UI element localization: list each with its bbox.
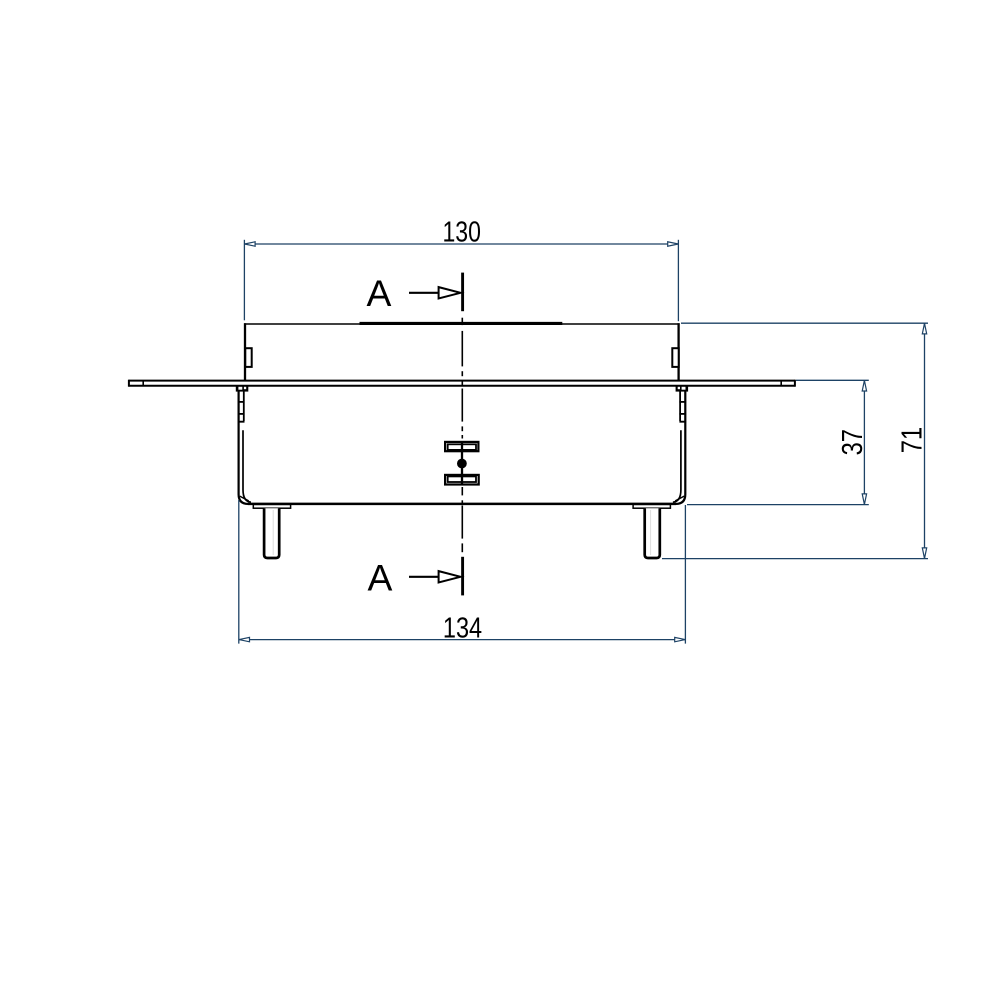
dimension 37 line xyxy=(863,380,865,504)
dimension 130 line xyxy=(244,243,678,245)
right wall rung 2 xyxy=(679,413,686,415)
section line top solid segment xyxy=(461,273,464,312)
lower box right wall outer line with corner fillet xyxy=(676,392,686,504)
dimension 71 line xyxy=(924,323,926,558)
right wall rung 1 xyxy=(679,401,686,403)
right leg mounting plate xyxy=(633,505,670,509)
section arrow bottom tail xyxy=(409,576,439,578)
upper box right edge xyxy=(677,323,679,380)
dimension 37 arrow down xyxy=(862,494,866,505)
svg-text:37: 37 xyxy=(837,429,869,455)
table top plate top line xyxy=(128,380,795,382)
burner clamp dot xyxy=(457,459,467,469)
dimension 134 extension line left xyxy=(238,500,240,644)
svg-text:71: 71 xyxy=(897,427,929,453)
right corner diagonal tick xyxy=(675,496,684,501)
lower box bottom edge xyxy=(248,503,676,506)
right wall rung 3 xyxy=(679,421,686,423)
right leg faint tangent line xyxy=(650,510,652,555)
left wall rung 2 xyxy=(238,413,245,415)
dimension 130 extension line left xyxy=(243,240,245,320)
dimension 134 arrow left xyxy=(239,637,250,641)
section line bottom solid segment xyxy=(461,557,464,596)
left clip on upper box edge xyxy=(245,348,251,367)
left wall rung 1 xyxy=(238,401,245,403)
dimension 71 arrow down xyxy=(922,548,926,559)
burner clamp bottom bar centerline crossing xyxy=(461,475,463,485)
svg-text:130: 130 xyxy=(443,216,481,248)
lower box right wall inner lower line with fillet xyxy=(673,430,681,502)
right leg shaft xyxy=(645,508,660,558)
burner clamp center line xyxy=(461,442,463,485)
plate left seam xyxy=(142,381,144,386)
burner clamp top bar outer xyxy=(445,442,478,451)
left hinge bracket under plate xyxy=(236,386,249,391)
section arrow bottom head xyxy=(439,571,461,582)
plate left end cap xyxy=(128,380,130,387)
upper box left edge xyxy=(244,323,246,380)
upper box top edge thin line xyxy=(244,323,680,325)
dimension 71 extension line top xyxy=(681,322,928,324)
table top plate bottom line xyxy=(128,385,795,387)
dimension 134 extension line right xyxy=(684,505,686,644)
dimension 130 arrow right xyxy=(668,242,679,246)
dimension 71 extension line bottom xyxy=(662,558,928,560)
dimension 130 arrow left xyxy=(245,242,256,246)
lower box left wall outer line with corner fillet xyxy=(239,392,249,504)
dimension 130 extension line right xyxy=(677,240,679,321)
plate right end cap xyxy=(794,380,796,387)
burner clamp top bar centerline crossing xyxy=(461,442,463,451)
dimension 71 arrow up xyxy=(922,323,926,334)
plate right seam xyxy=(780,381,782,386)
svg-text:134: 134 xyxy=(443,613,482,645)
dimension 37 arrow up xyxy=(862,381,866,392)
right hinge bracket under plate xyxy=(676,386,689,391)
section arrow top head xyxy=(439,287,461,298)
left leg faint tangent line xyxy=(272,510,274,555)
lower box left wall inner upper line xyxy=(243,392,245,422)
dimension 134 arrow right xyxy=(675,637,686,641)
dimension 37 extension line bottom xyxy=(687,504,869,506)
burner clamp bottom bar inner xyxy=(448,476,476,482)
left corner diagonal tick xyxy=(240,496,249,501)
left leg shaft xyxy=(264,508,279,558)
burner clamp top bar inner xyxy=(448,444,476,450)
svg-text:A: A xyxy=(368,556,393,598)
left leg mounting plate xyxy=(253,505,290,509)
lower box left wall inner lower line with fillet xyxy=(243,430,251,502)
left wall rung 3 xyxy=(238,421,245,423)
right clip on upper box edge xyxy=(672,348,678,367)
dimension 134 line xyxy=(239,639,686,641)
svg-text:A: A xyxy=(367,272,392,314)
burner clamp bottom bar outer xyxy=(445,475,479,485)
upper box top edge thick burner segment xyxy=(360,322,563,325)
centerline dash-dot segments xyxy=(461,318,463,553)
lower box right wall inner upper line xyxy=(679,392,681,422)
section arrow top tail xyxy=(409,292,439,294)
dimension 37 extension line top xyxy=(796,379,869,381)
